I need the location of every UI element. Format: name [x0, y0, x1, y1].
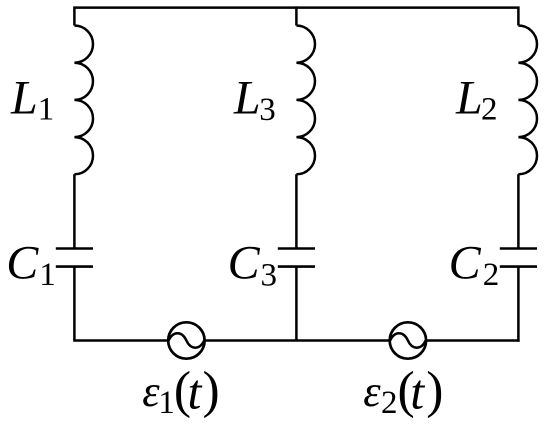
svg-text:ε: ε: [363, 367, 381, 416]
svg-text:3: 3: [261, 258, 278, 294]
svg-text:C: C: [228, 237, 261, 290]
svg-text:): ): [203, 362, 220, 419]
wire right branch below C2: [517, 267, 520, 342]
label C2: [449, 237, 500, 294]
wire middle branch top stub: [295, 6, 298, 25]
label E2(t): [363, 362, 443, 421]
inductor L1: [74, 26, 93, 175]
svg-text:2: 2: [481, 92, 498, 128]
wire bottom rail left segment: [73, 339, 167, 342]
wire left branch below C1: [73, 267, 76, 341]
inductor L3: [296, 26, 315, 175]
capacitor C2: [500, 249, 537, 267]
capacitor C1: [56, 249, 93, 267]
svg-text:L: L: [455, 71, 483, 124]
wire bottom rail right segment: [427, 339, 519, 342]
label E1(t): [142, 362, 219, 421]
label L2: [455, 71, 498, 127]
wire middle branch below C3 to bottom junction: [295, 267, 298, 341]
svg-text:C: C: [6, 237, 39, 290]
wire right branch top stub: [517, 6, 520, 25]
wire left branch top stub: [73, 6, 76, 25]
label L1: [10, 71, 54, 127]
svg-text:L: L: [10, 71, 38, 124]
svg-text:L: L: [233, 71, 261, 124]
svg-text:1: 1: [39, 257, 56, 293]
svg-text:t: t: [188, 364, 203, 420]
label L3: [233, 71, 276, 128]
svg-text:3: 3: [259, 92, 276, 128]
wire bottom rail middle segment: [206, 339, 390, 342]
svg-text:): ): [426, 362, 443, 419]
svg-text:1: 1: [38, 92, 55, 128]
inductor L2: [518, 26, 537, 175]
AC source E1: [168, 322, 204, 358]
AC source E2: [390, 322, 426, 358]
wire middle branch between L3 and C3: [295, 174, 298, 248]
capacitor C3: [278, 249, 315, 267]
wire top rail: [74, 6, 518, 9]
svg-text:1: 1: [158, 385, 175, 421]
wire left branch between L1 and C1: [73, 174, 76, 248]
wire right branch between L2 and C2: [517, 174, 520, 248]
svg-text:t: t: [410, 364, 425, 420]
svg-text:C: C: [449, 237, 482, 290]
label C3: [228, 237, 277, 294]
label C1: [6, 237, 56, 294]
svg-text:2: 2: [381, 385, 398, 421]
svg-text:2: 2: [483, 257, 500, 293]
